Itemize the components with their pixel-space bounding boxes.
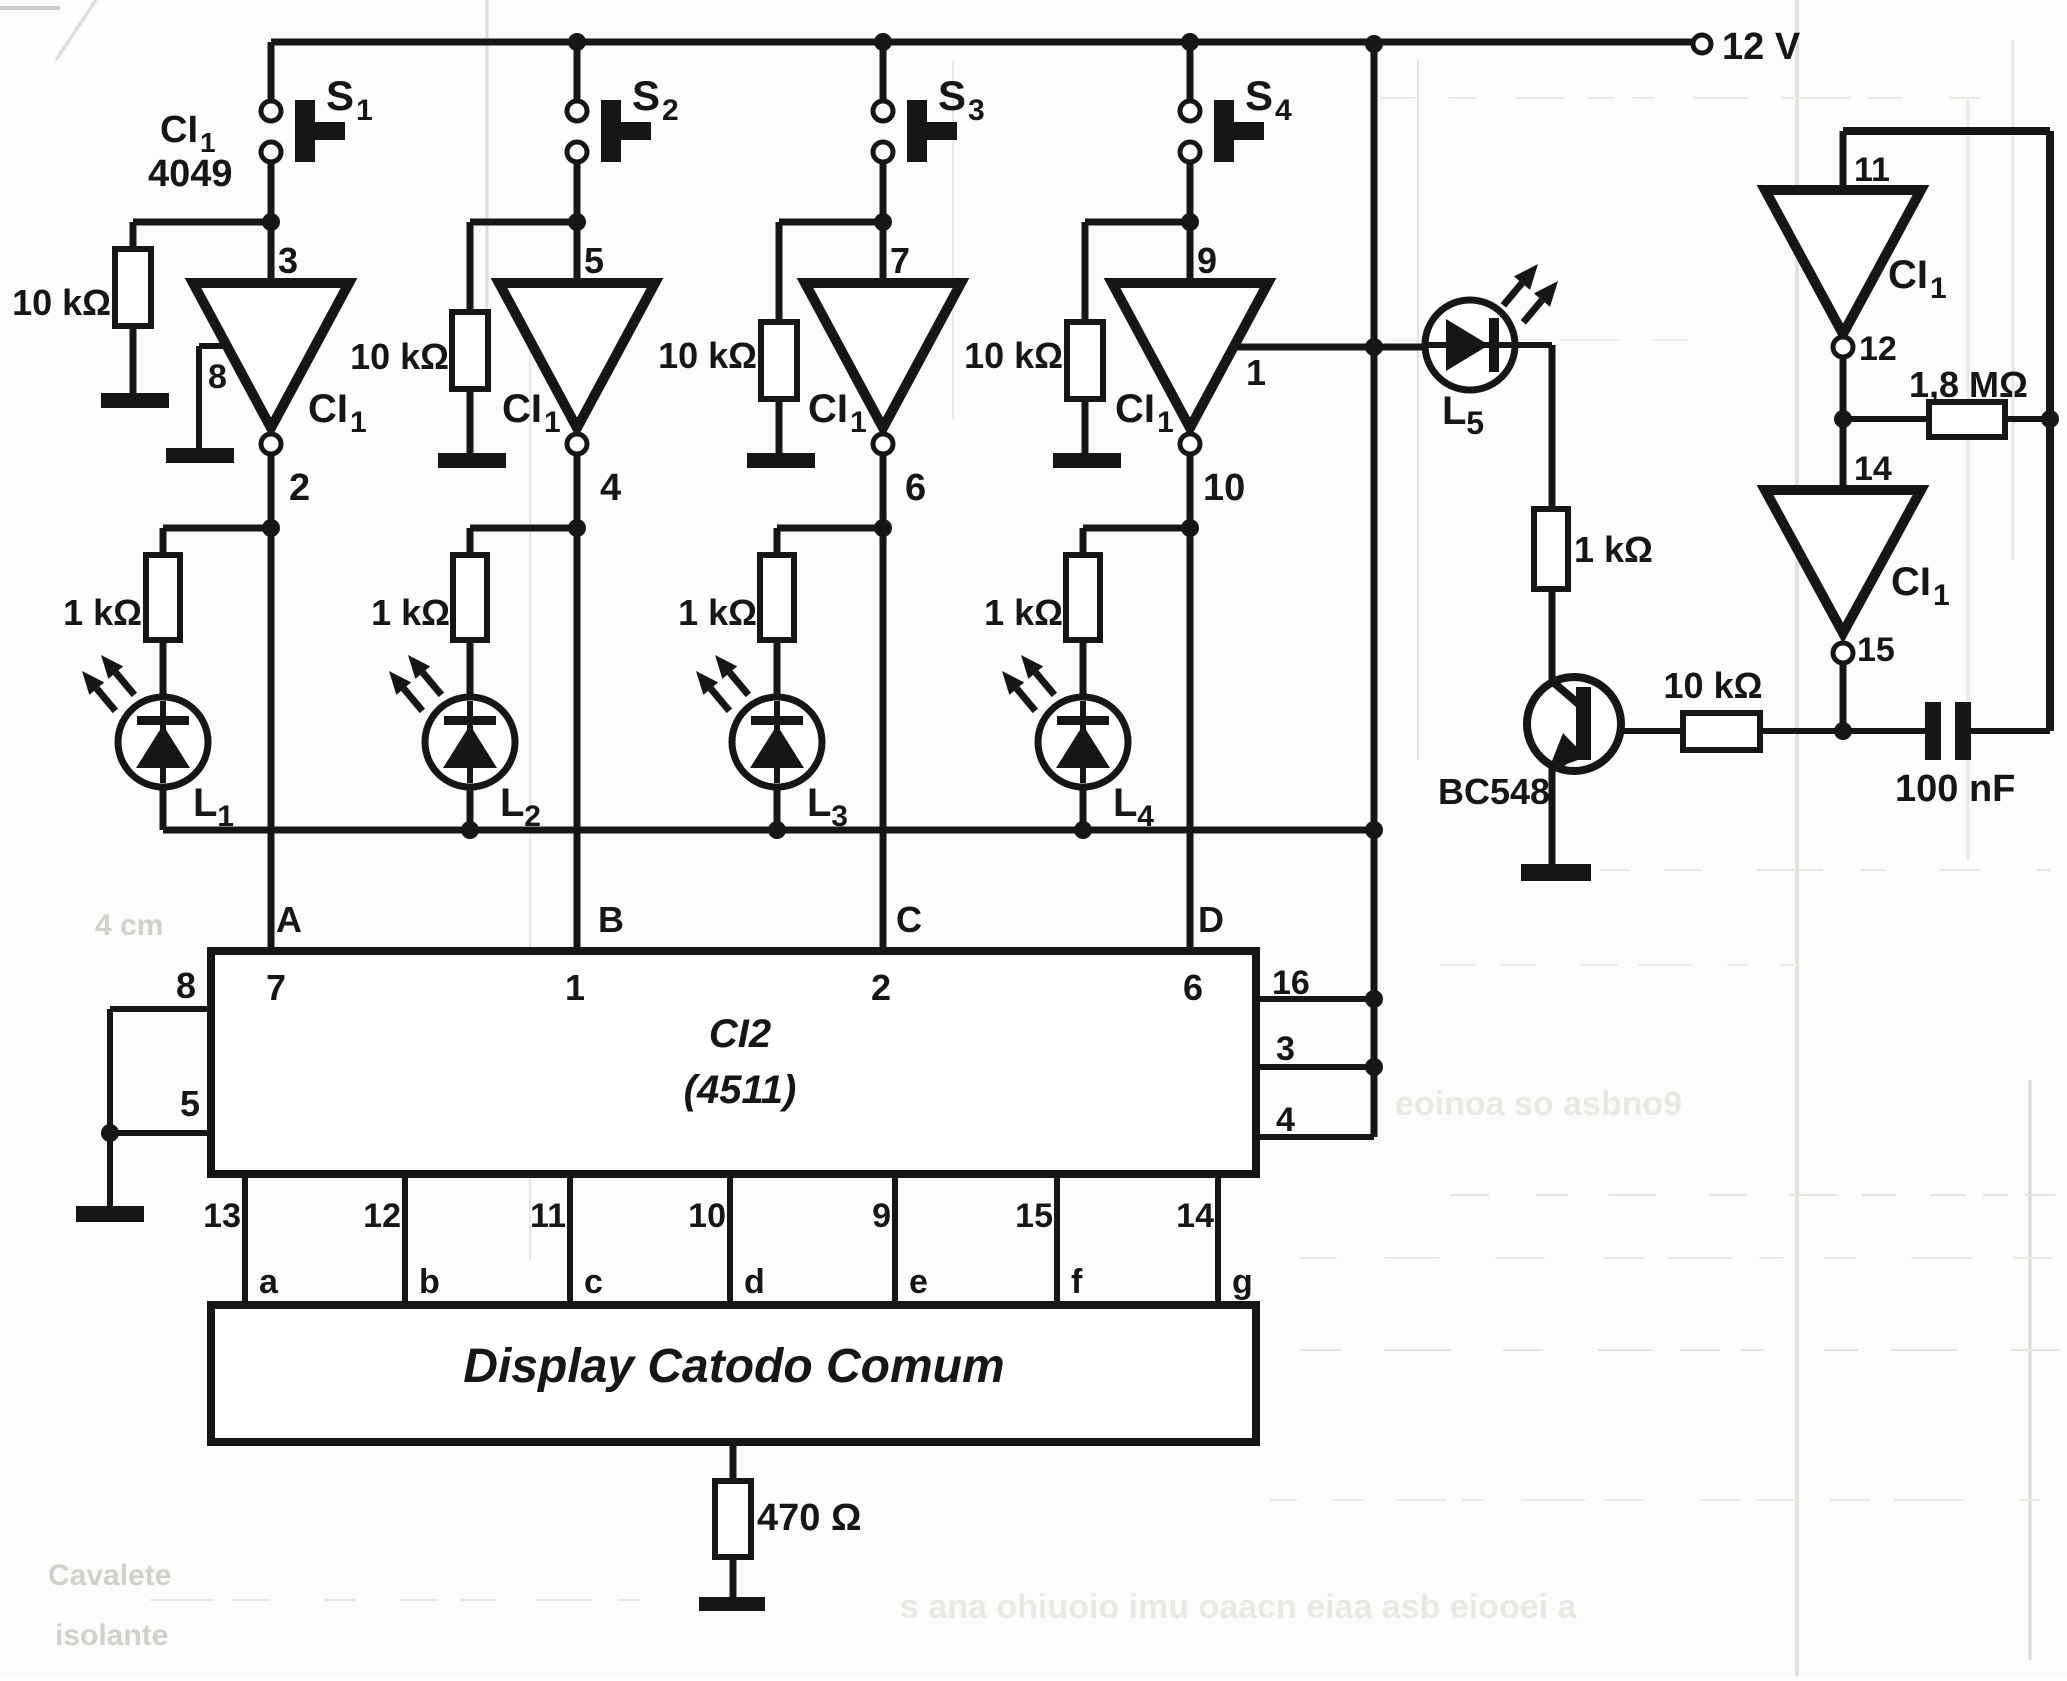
svg-text:B: B (598, 899, 624, 940)
svg-text:1: 1 (350, 406, 367, 439)
svg-text:1 kΩ: 1 kΩ (678, 592, 757, 633)
svg-text:2: 2 (289, 467, 310, 509)
svg-text:4049: 4049 (148, 153, 233, 195)
svg-text:CI: CI (1891, 560, 1931, 604)
svg-text:5: 5 (584, 240, 604, 281)
svg-text:1 kΩ: 1 kΩ (984, 592, 1063, 633)
svg-text:L: L (1442, 389, 1466, 433)
svg-text:e: e (909, 1263, 928, 1301)
svg-text:1: 1 (1157, 406, 1174, 439)
svg-text:1: 1 (1933, 579, 1950, 612)
svg-text:12 V: 12 V (1722, 26, 1801, 68)
svg-text:4 cm: 4 cm (95, 909, 163, 942)
svg-text:S: S (326, 72, 354, 119)
svg-text:L: L (1113, 781, 1137, 825)
svg-text:5: 5 (180, 1083, 200, 1124)
svg-text:CI: CI (808, 387, 848, 431)
svg-text:isolante: isolante (55, 1619, 168, 1652)
svg-text:CI2: CI2 (709, 1012, 771, 1056)
svg-text:b: b (419, 1263, 440, 1301)
svg-text:9: 9 (1197, 240, 1217, 281)
svg-text:6: 6 (1183, 967, 1203, 1008)
svg-text:10 kΩ: 10 kΩ (12, 282, 111, 323)
svg-text:1: 1 (565, 967, 585, 1008)
svg-text:10: 10 (688, 1197, 726, 1235)
svg-text:L: L (500, 781, 524, 825)
svg-text:4: 4 (1275, 94, 1292, 127)
svg-text:s ana ohiuoio imu oaacn ei: s ana ohiuoio imu oaacn eiaa asb eiooei … (900, 1588, 1578, 1626)
svg-text:100 nF: 100 nF (1895, 768, 2015, 810)
svg-text:11: 11 (530, 1197, 566, 1235)
svg-text:A: A (276, 899, 302, 940)
svg-text:10 kΩ: 10 kΩ (350, 336, 449, 377)
svg-text:12: 12 (1859, 330, 1897, 368)
svg-text:2: 2 (871, 967, 891, 1008)
svg-text:1: 1 (356, 94, 373, 127)
svg-text:5: 5 (1466, 405, 1484, 441)
svg-text:D: D (1198, 899, 1224, 940)
svg-text:1,8 MΩ: 1,8 MΩ (1909, 364, 2028, 405)
svg-text:10 kΩ: 10 kΩ (658, 335, 757, 376)
svg-text:CI: CI (160, 109, 198, 151)
svg-text:1: 1 (1246, 352, 1266, 393)
svg-text:S: S (1245, 72, 1273, 119)
svg-text:12: 12 (363, 1197, 401, 1235)
svg-text:S: S (938, 72, 966, 119)
svg-text:11: 11 (1854, 151, 1890, 189)
svg-text:9: 9 (872, 1197, 891, 1235)
svg-text:3: 3 (278, 240, 298, 281)
svg-text:14: 14 (1854, 450, 1892, 488)
svg-text:a: a (259, 1263, 279, 1301)
svg-text:10 kΩ: 10 kΩ (1664, 665, 1763, 706)
svg-text:16: 16 (1272, 964, 1310, 1002)
svg-text:1 kΩ: 1 kΩ (1574, 529, 1653, 570)
svg-text:8: 8 (208, 358, 227, 396)
svg-text:3: 3 (1276, 1030, 1295, 1068)
svg-text:15: 15 (1857, 631, 1895, 669)
svg-text:3: 3 (968, 94, 985, 127)
svg-text:13: 13 (203, 1197, 241, 1235)
svg-text:7: 7 (890, 240, 910, 281)
svg-text:15: 15 (1015, 1197, 1053, 1235)
svg-text:1: 1 (544, 406, 561, 439)
svg-text:Cavalete: Cavalete (48, 1559, 171, 1592)
svg-text:BC548: BC548 (1438, 771, 1550, 812)
svg-text:Display Catodo Comum: Display Catodo Comum (463, 1340, 1004, 1393)
svg-text:1 kΩ: 1 kΩ (63, 592, 142, 633)
svg-text:4: 4 (600, 467, 621, 509)
svg-text:c: c (584, 1263, 603, 1301)
svg-text:f: f (1071, 1263, 1083, 1301)
svg-text:4: 4 (1276, 1101, 1295, 1139)
svg-text:eoinoa so asbno9: eoinoa so asbno9 (1395, 1085, 1682, 1123)
svg-text:d: d (744, 1263, 765, 1301)
svg-text:2: 2 (662, 94, 679, 127)
svg-text:1 kΩ: 1 kΩ (371, 592, 450, 633)
svg-text:14: 14 (1176, 1197, 1214, 1235)
svg-text:S: S (632, 72, 660, 119)
svg-text:L: L (193, 781, 217, 825)
svg-text:7: 7 (266, 967, 286, 1008)
svg-text:1: 1 (850, 406, 867, 439)
svg-text:CI: CI (1888, 253, 1928, 297)
svg-text:8: 8 (176, 965, 196, 1006)
svg-text:L: L (807, 781, 831, 825)
svg-text:470 Ω: 470 Ω (757, 1497, 861, 1539)
svg-text:6: 6 (905, 467, 926, 509)
svg-text:(4511): (4511) (684, 1068, 797, 1112)
svg-text:10 kΩ: 10 kΩ (964, 335, 1063, 376)
svg-text:C: C (896, 899, 922, 940)
svg-text:CI: CI (308, 387, 348, 431)
svg-text:10: 10 (1203, 467, 1245, 509)
svg-text:CI: CI (502, 387, 542, 431)
svg-text:1: 1 (1930, 272, 1947, 305)
svg-text:g: g (1232, 1263, 1253, 1301)
svg-text:CI: CI (1115, 387, 1155, 431)
